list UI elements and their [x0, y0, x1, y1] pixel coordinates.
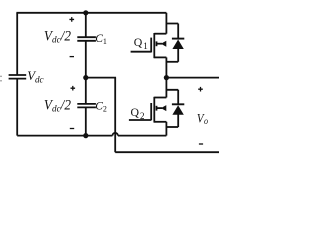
svg-text:C2: C2: [95, 100, 107, 113]
svg-text:Q2: Q2: [131, 105, 145, 121]
svg-text:C1: C1: [95, 33, 107, 46]
svg-text:Vdc/2: Vdc/2: [44, 97, 71, 115]
svg-text:Q1: Q1: [134, 35, 148, 51]
svg-text:Vo: Vo: [197, 112, 209, 126]
svg-text:Vdc/2: Vdc/2: [44, 28, 71, 46]
svg-text:Vdc: Vdc: [27, 69, 43, 84]
